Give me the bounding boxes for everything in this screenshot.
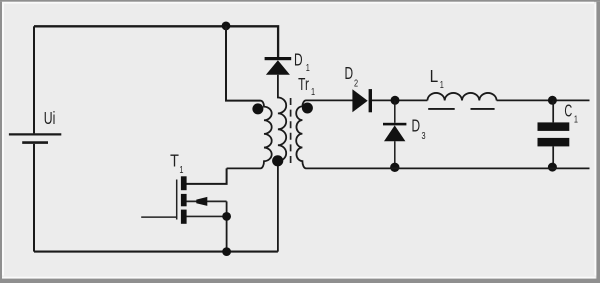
wire D2 to L1 (372, 99, 427, 101)
node J3 D3 anode junction (390, 163, 399, 172)
node J2 D2/D3 junction (391, 96, 400, 105)
svg-text:Ui: Ui (44, 109, 56, 129)
transformer Tr1 secondary winding (296, 100, 306, 168)
wire body lead (187, 200, 227, 202)
battery Ui long plate (9, 133, 61, 135)
svg-text:C: C (564, 102, 572, 121)
capacitor C1 top lead (552, 100, 554, 122)
svg-text:D: D (411, 116, 420, 136)
svg-text:L: L (430, 67, 439, 86)
battery Ui short plate (22, 141, 48, 144)
capacitor C1 bottom lead (552, 146, 554, 168)
node J6 bottom rail junction (222, 247, 231, 256)
svg-text:1: 1 (311, 86, 315, 98)
transistor T1 body diode arrow (196, 197, 207, 206)
frame border left (0, 2, 2, 283)
frame border bottom white inner line (2, 277, 596, 279)
transformer Tr1 demag winding phase dot (272, 155, 283, 166)
node J1 top rail junction (222, 22, 231, 31)
frame border bottom (0, 279, 600, 283)
frame border right (596, 2, 600, 283)
wire bottom rail (34, 251, 278, 253)
node J7 output bottom junction (548, 163, 557, 172)
capacitor C1 top plate (538, 122, 570, 130)
wire left vertical bottom (Ui negative lead) (33, 144, 35, 252)
transformer Tr1 primary winding (227, 101, 272, 169)
svg-text:Tr: Tr (298, 75, 309, 95)
svg-text:2: 2 (354, 77, 358, 89)
wire source lead (187, 215, 227, 217)
transformer Tr1 core dashed line (290, 98, 292, 168)
svg-text:T: T (170, 152, 179, 171)
diode D3 cathode bar (383, 123, 406, 126)
wire drain connection (step) (187, 168, 227, 184)
wire left vertical top (Ui positive lead) (33, 26, 35, 133)
diode D3 triangle (384, 125, 405, 141)
svg-text:D: D (344, 64, 353, 84)
wire L1 to output (497, 99, 590, 101)
inductor L1 core dashes (428, 108, 494, 110)
wire secondary top to D2 (306, 99, 353, 101)
frame border left white inner line (2, 4, 4, 276)
svg-text:1: 1 (179, 164, 183, 176)
svg-text:3: 3 (422, 130, 426, 142)
frame border top white inner line (2, 2, 594, 4)
svg-text:1: 1 (306, 62, 310, 74)
transformer Tr1 primary phase dot (252, 103, 263, 114)
wire bottom output rail (306, 167, 590, 169)
transformer Tr1 demagnetization winding (D1 anode line) (278, 75, 286, 252)
diode D1 triangle (266, 60, 290, 75)
transistor T1 source bar (181, 210, 187, 224)
wire source-body vertical (226, 201, 228, 251)
node J4 output top junction (548, 96, 557, 105)
svg-text:1: 1 (440, 79, 444, 91)
wire primary top feed (226, 26, 261, 101)
node J5 source junction (222, 212, 231, 221)
diode D3 anode lead (394, 141, 396, 168)
diode D1 cathode bar (265, 57, 292, 60)
inductor L1 (427, 93, 496, 100)
transistor T1 gate line (176, 180, 178, 220)
transformer Tr1 secondary phase dot (302, 103, 313, 114)
svg-text:1: 1 (574, 113, 578, 125)
frame border top (0, 0, 600, 2)
transistor T1 gate lead (141, 216, 177, 218)
diode D2 triangle (352, 89, 367, 112)
transistor T1 body bar (181, 194, 187, 206)
diode D3 cathode lead (394, 100, 396, 122)
wire top rail with D1 top lead (34, 26, 278, 57)
transistor T1 drain bar (181, 176, 187, 190)
diode D2 cathode bar (369, 89, 372, 112)
svg-text:D: D (294, 50, 303, 70)
capacitor C1 bottom plate (538, 138, 570, 147)
frame border right white inner line (594, 4, 596, 276)
